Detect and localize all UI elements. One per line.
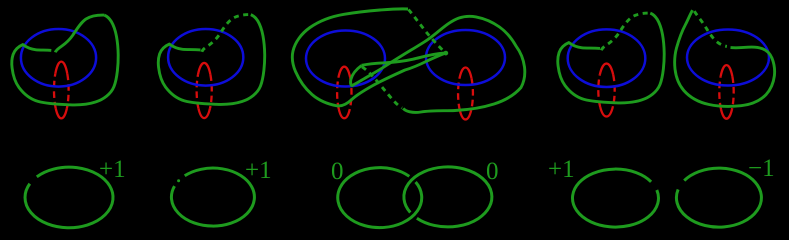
red meridian circle m3R <box>458 68 473 120</box>
green curve K3a (slid handle, left component) <box>292 9 448 106</box>
red meridian circle m4 <box>598 64 614 117</box>
red meridian circle m2 <box>197 63 212 118</box>
blue torus ellipse T1 <box>21 29 96 87</box>
svg-text:+1: +1 <box>548 156 575 183</box>
green curve K5 (mirrored clasp) <box>675 10 775 106</box>
svg-text:0: 0 <box>331 158 344 185</box>
green unknot U6 (-1 framed) <box>676 168 761 227</box>
blue torus ellipse T3L <box>306 31 385 87</box>
green unknot U1 (+1 framed) <box>25 167 113 228</box>
green curve K4 (clasp under, dashed) <box>558 13 664 103</box>
svg-text:+1: +1 <box>245 157 272 184</box>
green unknot U5 (+1 framed) <box>572 169 658 227</box>
red meridian circle m5 <box>719 65 733 119</box>
green unknot U3 (0 framed, linked) <box>338 168 422 228</box>
green curve K1 (clasp over) <box>12 15 118 105</box>
green curve K3b (right component) <box>351 16 525 112</box>
red meridian circle m3L <box>337 67 351 119</box>
red meridian circle m1 <box>54 62 69 119</box>
blue torus ellipse T5 <box>687 30 769 86</box>
svg-text:0: 0 <box>486 158 499 185</box>
svg-text:+1: +1 <box>99 156 126 183</box>
green unknot U4 (0 framed, linked) <box>404 167 492 227</box>
svg-text:−1: −1 <box>748 155 775 182</box>
blue torus ellipse T4 <box>568 29 646 87</box>
green unknot U2 (+1 framed) <box>171 168 254 226</box>
blue torus ellipse T3R <box>426 30 505 85</box>
blue torus ellipse T2 <box>168 29 243 86</box>
green curve K2 (clasp under, dashed) <box>158 15 264 105</box>
